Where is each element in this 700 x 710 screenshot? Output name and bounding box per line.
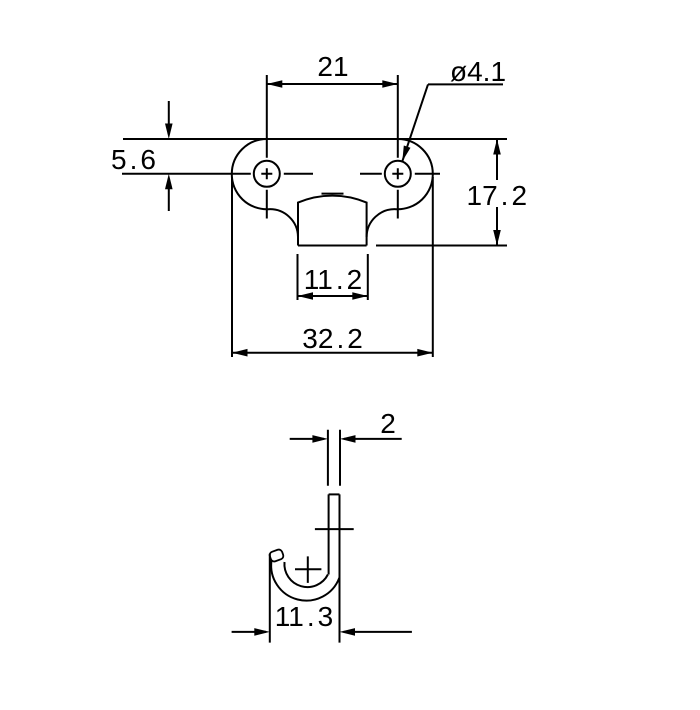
horizontal center line through holes (left part, also 5.6 ext) (122, 173, 313, 175)
dim 21 right arrow (382, 80, 398, 88)
white mask behind 17.2 (467, 180, 527, 207)
svg-text:21: 21 (317, 51, 348, 82)
svg-text:32.2: 32.2 (302, 323, 363, 354)
dim 17.2 line (496, 139, 498, 246)
dim 21 left arrow (267, 80, 283, 88)
dim 5.6 down arrow (165, 124, 173, 140)
svg-text:5.6: 5.6 (111, 144, 156, 175)
svg-text:ø4.1: ø4.1 (450, 56, 506, 87)
right hole vertical center line / 21 extension line (397, 75, 399, 219)
dim 11.2 line (298, 295, 368, 297)
left lobe arc (232, 139, 298, 237)
central tab inner top line (far edge of bent hook) (322, 193, 344, 195)
dim 21 line (267, 83, 398, 85)
dim 5.6 up arrow (165, 174, 173, 190)
svg-text:2: 2 (380, 408, 396, 439)
leader arrow to hole (402, 146, 410, 162)
dim 5.6 arrow lines (168, 101, 170, 211)
svg-text:17.2: 17.2 (467, 180, 528, 211)
hook strip outer line + 11.3 right extension (339, 494, 341, 642)
dim 2 left arrow (312, 435, 328, 443)
left hole center cross (261, 168, 272, 179)
dim 11.2 right arrow (352, 292, 368, 300)
dim 11.3 line left (232, 631, 266, 633)
top edge line (plate top, extended both sides as extension line) (123, 138, 507, 140)
dim 2 extension lines (328, 430, 340, 486)
dim 32.2 line (232, 352, 433, 354)
hook strip inner line (328, 494, 330, 574)
right lobe arc (367, 139, 433, 237)
hook tip cap (269, 549, 285, 563)
svg-text:11.2: 11.2 (304, 264, 362, 295)
dim 11.3 left arrow (254, 628, 269, 636)
dim 17.2 bottom arrow (493, 230, 501, 246)
left hole circle (254, 161, 280, 187)
central tab outline (hook front view) (298, 196, 367, 246)
right hole circle (385, 161, 411, 187)
dim 17.2 top arrow (493, 139, 501, 155)
central tab bottom edge (298, 245, 367, 247)
bend tick across strip (315, 528, 354, 530)
leader line for hole diameter (402, 84, 503, 161)
left hole vertical center line / 21 extension line (266, 75, 268, 219)
hook inner arc (284, 562, 327, 587)
dim 32.2 right arrow (417, 349, 433, 357)
dim 32.2 left arrow (232, 349, 248, 357)
dim 11.3 left extension line (269, 554, 271, 643)
plate right edge + 32.2 extension line (432, 177, 434, 357)
dim 11.2 extension lines (298, 254, 368, 300)
dim 11.3 line right (344, 631, 412, 633)
svg-text:11.3: 11.3 (275, 601, 333, 632)
bottom edge extension line for 17.2 (376, 245, 507, 247)
horizontal center line through holes (right part) (360, 173, 440, 175)
dim 2 right arrow (340, 435, 356, 443)
dim 11.2 left arrow (298, 292, 314, 300)
dim 2 line right (344, 438, 402, 440)
hook arc center cross (295, 556, 321, 583)
plate left edge + 32.2 extension line (231, 177, 233, 357)
dim 11.3 right arrow (340, 628, 356, 636)
hook strip top cap (329, 493, 340, 495)
right hole center cross (392, 168, 403, 179)
dim 2 line left (290, 438, 324, 440)
hook outer arc (271, 561, 339, 601)
